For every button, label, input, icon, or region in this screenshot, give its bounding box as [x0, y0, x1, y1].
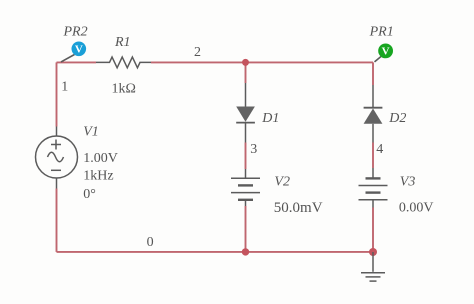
wire net 4 D2 to V3: [372, 143, 374, 169]
svg-text:D1: D1: [261, 111, 279, 126]
wire top net 2 segment left: [57, 61, 97, 63]
source V1: [36, 127, 78, 189]
svg-text:1kΩ: 1kΩ: [112, 81, 136, 96]
svg-text:1: 1: [61, 79, 68, 94]
wire V3 to bottom: [372, 208, 374, 252]
junction node 2: [242, 59, 249, 66]
svg-text:0°: 0°: [83, 187, 96, 202]
wire D2 branch top: [372, 62, 374, 85]
svg-text:50.0mV: 50.0mV: [274, 200, 323, 216]
wire bottom net 0: [57, 251, 374, 253]
svg-text:1kHz: 1kHz: [83, 168, 113, 183]
svg-text:2: 2: [194, 45, 201, 60]
svg-text:V3: V3: [400, 175, 416, 190]
battery V2: [231, 169, 260, 206]
probe PR1: [378, 44, 393, 59]
svg-text:0.00V: 0.00V: [399, 200, 434, 215]
battery V3: [359, 168, 388, 208]
junction ground node: [369, 248, 377, 256]
svg-text:V2: V2: [274, 175, 290, 190]
wire net 3 D1 to V2: [245, 143, 247, 170]
svg-text:R1: R1: [114, 35, 131, 50]
junction V2 bottom: [242, 248, 249, 255]
svg-text:V1: V1: [83, 125, 99, 140]
diode D2: [364, 85, 383, 143]
diode D1: [236, 83, 255, 143]
wire top net 2 segment right: [151, 61, 373, 63]
probe PR2 pointer: [61, 55, 75, 62]
probe PR2: [72, 42, 87, 57]
probe PR1 pointer: [375, 57, 382, 62]
svg-text:D2: D2: [388, 111, 406, 126]
svg-text:PR1: PR1: [369, 24, 394, 39]
wire V2 to bottom: [245, 206, 247, 252]
ground: [361, 252, 385, 281]
svg-text:1.00V: 1.00V: [83, 151, 118, 166]
wire left branch net 0 lower: [56, 189, 58, 252]
resistor R1: [96, 57, 151, 68]
svg-text:V: V: [382, 46, 390, 58]
svg-text:PR2: PR2: [63, 24, 88, 39]
wire left branch net 1 upper: [56, 62, 58, 126]
svg-text:3: 3: [250, 142, 257, 157]
svg-text:0: 0: [147, 235, 154, 250]
wire D1 branch top: [245, 62, 247, 83]
svg-text:V: V: [75, 43, 83, 55]
svg-text:4: 4: [376, 142, 383, 157]
